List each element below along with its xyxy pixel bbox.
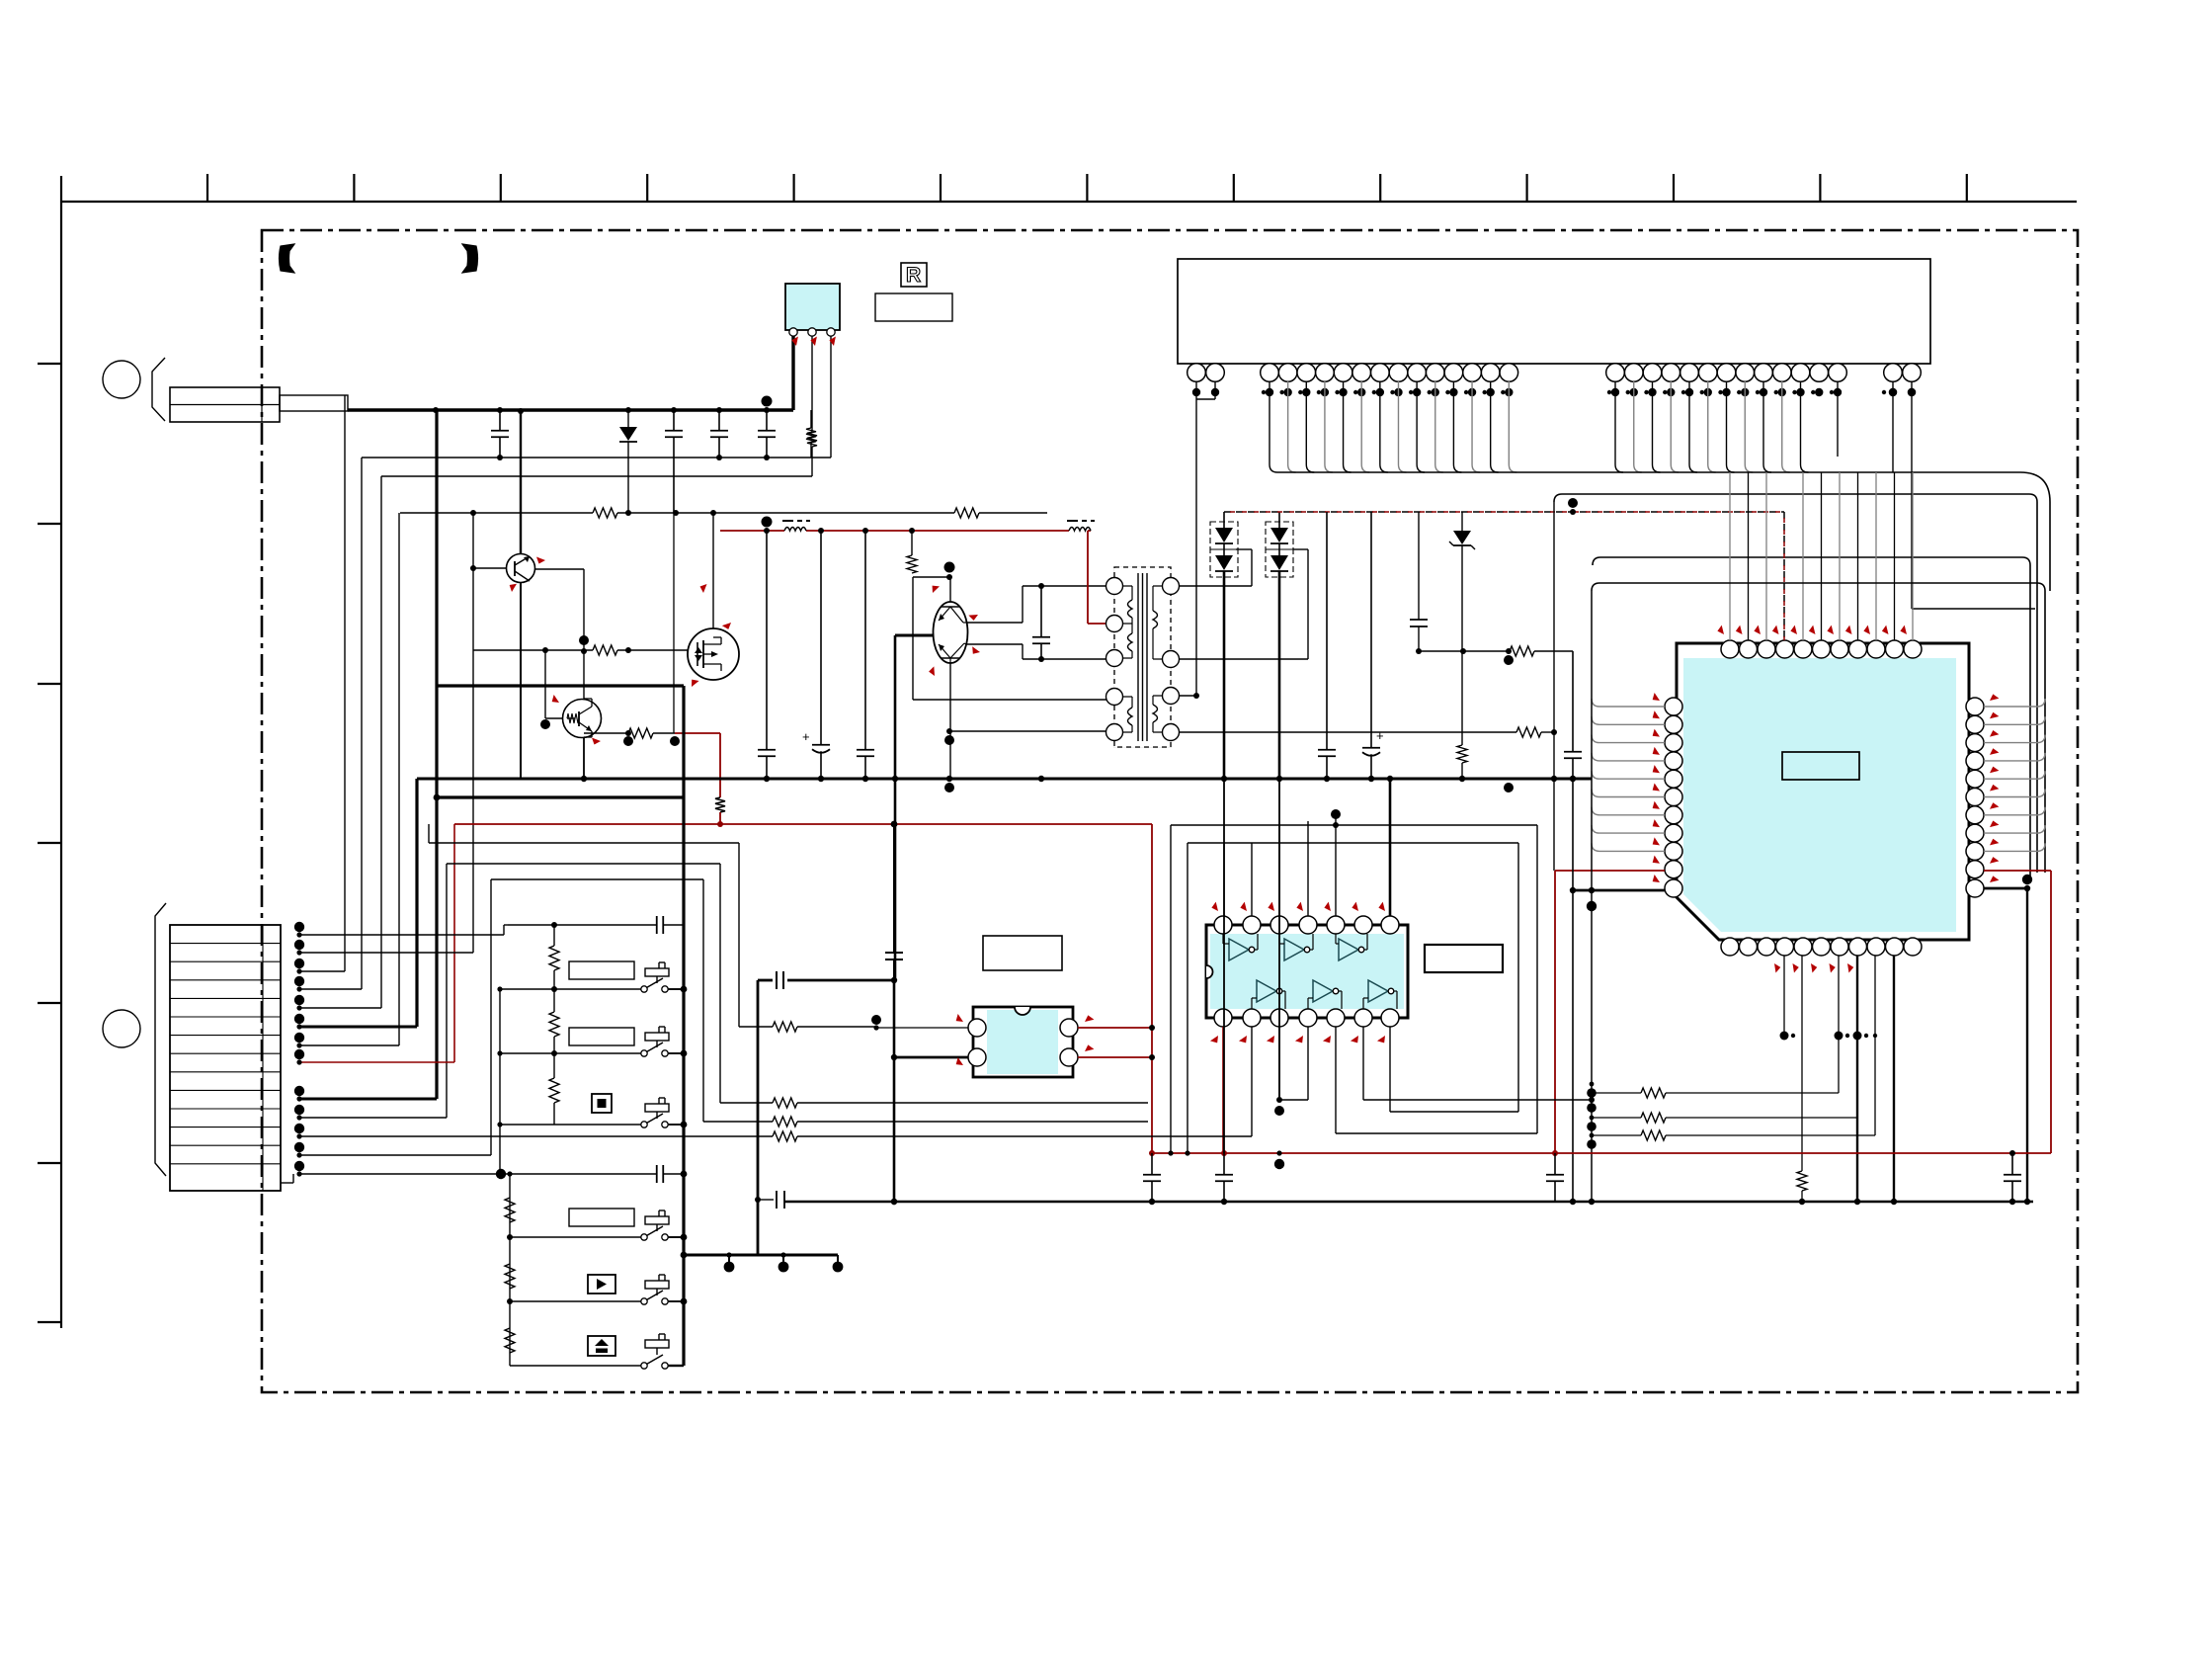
- capacitor C210: [1418, 512, 1420, 620]
- red signal-flow arrows: [791, 337, 1999, 1068]
- board outline dash-dot border: [262, 230, 2078, 1392]
- red branch row to connector: [299, 1061, 454, 1063]
- IC204 inverter 3: [1339, 939, 1358, 960]
- resistor R210 top: [907, 555, 917, 573]
- gnd bus dots: [891, 1199, 2030, 1205]
- IC204 inverter 4: [1257, 980, 1276, 1002]
- IC204 bottom pins: [1214, 1009, 1399, 1027]
- IC202 pin31 wire: [1911, 381, 1913, 609]
- branch line y1106 with resistor: [1592, 1092, 1641, 1094]
- connector row wires upper: [299, 934, 504, 936]
- ladder left rail x506: [499, 989, 501, 1174]
- IC202 pin2 wire jog: [1214, 381, 1216, 392]
- switch row2 y1066: [500, 1052, 641, 1054]
- IC202 group2 wires to bus: [1270, 381, 1516, 472]
- red feed to transformer pin2: [1087, 531, 1089, 624]
- red rail y537: [720, 530, 784, 532]
- IC202 display driver box: [1178, 259, 1930, 364]
- long line y564: [1593, 557, 2030, 879]
- capacitor C208: [1040, 586, 1042, 637]
- Q204 top lead dots: [946, 574, 952, 580]
- IC205 body: [973, 1007, 1073, 1077]
- T201 primary winding 3: [1128, 708, 1133, 725]
- gate row y658 with resistor R206: [473, 649, 593, 651]
- red wire left pin10: [1555, 870, 1665, 872]
- bus wire x452 loop2: [446, 864, 448, 1118]
- svg-text:+: +: [802, 729, 810, 744]
- capacitor C211 column x1343: [1326, 512, 1328, 750]
- red wire to y834 rail: [719, 812, 721, 824]
- bus wire x434 loop1 stub: [428, 824, 430, 843]
- switch row6 y1382 eject: [510, 1365, 641, 1367]
- label box SW1: [569, 961, 634, 979]
- IC204 inverter 5: [1313, 980, 1333, 1002]
- connector CN1 body: [170, 387, 280, 422]
- switch row1 y1001: [500, 988, 641, 990]
- IC202 bus wire y470: [1277, 472, 2050, 591]
- IC203 top pin wires: [1730, 472, 1913, 640]
- hex loop right vertical x1556: [1536, 825, 1538, 1133]
- wire sec pin1 to diode D202: [1179, 585, 1252, 587]
- transistor Q202 digital: [563, 700, 602, 738]
- MOSFET Q203: [688, 628, 739, 680]
- IC205 right top wire red: [1078, 1027, 1152, 1029]
- net row y659: [1419, 650, 1510, 652]
- bus wire x386: [380, 476, 382, 1008]
- IC203 bottom pins: [1721, 938, 1922, 956]
- IC204 inverter 6: [1368, 980, 1388, 1002]
- IC204 inverter 1: [1229, 939, 1249, 960]
- red vertical x1574: [1554, 871, 1556, 1153]
- T201 primary winding 2: [1128, 633, 1133, 651]
- IC201 3-pin regulator: [785, 284, 840, 330]
- junction dots on line A: [497, 455, 770, 460]
- Q204 base link: [913, 576, 950, 578]
- IC201 pin2 lead with resistor R203: [811, 336, 813, 432]
- resistor R213: [1457, 745, 1467, 763]
- hex pin wires top: [1223, 843, 1225, 916]
- black vertical x1573: [1553, 502, 1555, 871]
- diode D201: [627, 410, 629, 427]
- transistor Q201: [507, 554, 535, 583]
- IC201 pin 3: [827, 328, 835, 336]
- play icon box: [588, 1275, 615, 1293]
- bus wire x479: [472, 513, 474, 953]
- junction dots on line C: [470, 510, 716, 516]
- connector CN2 row dots: [294, 922, 304, 1177]
- Q204 collector bottom link: [966, 643, 1023, 645]
- thick vertical x767: [757, 980, 760, 1255]
- capacitor C206 electrolytic: [820, 531, 822, 745]
- long line y500: [1554, 494, 2037, 873]
- bus wire x442 thick: [435, 410, 438, 1099]
- capacitor C203: [718, 410, 720, 431]
- label box IC201: [875, 293, 952, 321]
- mosfet source red link: [675, 732, 720, 734]
- board name bracket left: [280, 244, 295, 273]
- net line C y519 with resistors: [400, 512, 593, 514]
- IC203 right pins: [1966, 698, 1984, 897]
- red rail corner down x1166: [1151, 824, 1153, 1153]
- capacitor C207: [864, 531, 866, 750]
- IC205 label box: [983, 936, 1062, 970]
- inductor L202: [1069, 528, 1091, 532]
- diode pair feed x1295 lower: [1278, 779, 1280, 1100]
- IC205 left bottom wire thick: [894, 1056, 968, 1059]
- T201 secondary winding 2: [1153, 705, 1158, 722]
- switch row3 y1138 stop: [500, 1124, 641, 1126]
- board name bracket right: [462, 244, 478, 273]
- IC202 pin1 long wire to transformer: [1195, 381, 1197, 696]
- hex bottom pin wires: [1222, 1027, 1224, 1153]
- capacitor C220: [1151, 1153, 1153, 1175]
- Q201 right lead: [534, 568, 584, 570]
- cap row y1214: [758, 1199, 774, 1201]
- junction dots row y742: [623, 730, 680, 746]
- capacitor C215 x1592: [1572, 651, 1574, 752]
- dual diode D202 vertical: [1223, 571, 1226, 779]
- winding feed line y740: [949, 730, 1106, 732]
- junction dots red rail 537: [762, 517, 916, 535]
- IC203 QFP body: [1683, 658, 1956, 932]
- T201 pins: [1106, 578, 1180, 741]
- thick key common y1270: [684, 1254, 838, 1257]
- branch line y1131 with resistor: [1592, 1117, 1641, 1119]
- red dashed wire to QFP: [1783, 512, 1785, 640]
- eject icon box: [588, 1336, 615, 1356]
- red vertical x2076: [2050, 871, 2052, 1153]
- switch bus x692 thick: [682, 686, 685, 1366]
- net line B y482: [381, 475, 812, 477]
- IC201 pin 1: [789, 328, 797, 336]
- switch row4 y1252: [510, 1236, 641, 1238]
- bus wire x404: [398, 513, 400, 1045]
- vertical x552: [544, 650, 546, 718]
- gnd bus y1216: [784, 1201, 2033, 1204]
- cap row line y1188: [299, 1173, 510, 1175]
- thick base feed line y643: [895, 634, 934, 637]
- red wire right pin10: [1984, 870, 2051, 872]
- vertical x591: [583, 569, 585, 699]
- capacitor C205: [766, 531, 768, 750]
- row y742 with resistor R207: [584, 732, 628, 734]
- red wire source to rail: [719, 733, 721, 797]
- black wire left pin11: [1573, 889, 1665, 892]
- hex loop vertical x1202: [1187, 843, 1188, 1153]
- bottom pin dots: [1780, 1032, 1878, 1041]
- red supply bus y1167: [1152, 1152, 2051, 1154]
- wire sec pin2 to diode D203: [1179, 658, 1308, 660]
- dual diode D203: [1278, 512, 1280, 528]
- base line Q201: [473, 567, 506, 569]
- lower ladder x516: [509, 1174, 511, 1366]
- connector ref circle CN1: [103, 361, 140, 398]
- junction dots main bus: [581, 776, 1576, 793]
- thick link y806: [437, 795, 684, 798]
- thick vertical x905 lower: [893, 824, 895, 953]
- IC201 pin3 lead: [830, 336, 832, 458]
- IC204 label box: [1425, 945, 1503, 972]
- main bus y788: [417, 778, 1592, 781]
- hex loop vertical x1185: [1170, 825, 1172, 1153]
- branch line y1149 with resistor: [1592, 1134, 1641, 1136]
- IC205 right bottom wire red: [1078, 1056, 1152, 1058]
- transistor Q204 dual: [934, 602, 968, 663]
- key common hanging dots: [728, 1255, 730, 1263]
- winding feed line y708: [913, 699, 1106, 701]
- IC202 pins row: [1188, 364, 1922, 382]
- junction dots on B+ wire: [433, 396, 773, 414]
- T201 secondary winding 1: [1153, 611, 1158, 628]
- wire riser to IC201 pin1: [791, 334, 794, 410]
- IC202 pin30 wire: [1892, 381, 1894, 472]
- capacitor C201: [499, 410, 501, 431]
- label box SW2: [569, 1028, 634, 1045]
- capacitor row y1188: [510, 1173, 657, 1175]
- red dashed B+ line y518: [1224, 511, 1784, 513]
- T201 primary winding 1: [1128, 600, 1133, 618]
- black wire right pin11: [1984, 887, 2027, 890]
- connector CN2 bracket: [155, 903, 166, 1176]
- label box SW4: [569, 1209, 634, 1226]
- connector CN1 bracket: [152, 358, 165, 421]
- IC204 inverter 2: [1284, 939, 1304, 960]
- IC201 pin 2: [808, 328, 816, 336]
- wire sec pin3 to IC bus: [1179, 695, 1196, 697]
- loop1 chain: [429, 842, 739, 844]
- frame left tick marks: [38, 364, 61, 1322]
- IC204 top pins: [1214, 916, 1399, 934]
- IC203 bottom pin wires: [1783, 956, 1785, 1036]
- long row line y1150: [299, 1135, 773, 1137]
- loop3 chain: [491, 878, 703, 880]
- thick link y694: [437, 684, 684, 687]
- svg-text:+: +: [1376, 728, 1384, 743]
- Q204 bottom lead: [949, 663, 951, 779]
- stop icon box: [592, 1094, 612, 1113]
- transformer T201 dashed box: [1114, 567, 1171, 747]
- frame left ruler line: [60, 176, 62, 1328]
- dots on dashed line: [1570, 509, 1576, 515]
- black vertical x2052: [2026, 888, 2028, 1202]
- wire B+ from tuner connector: [348, 408, 793, 411]
- bus wire x460 red: [453, 824, 455, 1062]
- spine lower x1611: [1591, 843, 1593, 1202]
- resistor ladder x561: [553, 925, 555, 946]
- left spine x1611: [1592, 583, 2045, 873]
- inductor L201: [784, 528, 806, 532]
- switch row5 y1317 play: [510, 1300, 641, 1302]
- diode pair feed x1239 lower: [1223, 779, 1225, 1153]
- loop2 chain: [447, 863, 720, 865]
- dual diode D202: [1223, 512, 1225, 528]
- thick vertical x906: [894, 635, 897, 980]
- connector CN2 body: [170, 925, 281, 1191]
- hex loop right vertical x1537: [1517, 843, 1519, 1112]
- hex top loop y835: [1171, 824, 1537, 826]
- hex top loop y853: [1188, 842, 1518, 844]
- junction dots gate row: [542, 635, 631, 654]
- last row join stub: [281, 1182, 293, 1184]
- IC202 group3 wires to bus: [1615, 381, 1809, 472]
- thick line y992: [758, 979, 773, 982]
- capacitor C204: [766, 410, 768, 431]
- IC203 left pin loop wires: [1592, 699, 1665, 851]
- zener diode D204: [1461, 512, 1463, 531]
- resistor R218: [1797, 1171, 1807, 1191]
- bus wire x497 loop3: [490, 879, 492, 1155]
- switch rail y936: [508, 924, 657, 926]
- IC203 right pin loop wires: [1984, 699, 2045, 851]
- wire sec pin4 feedback: [1179, 731, 1516, 733]
- IC203 QFP outline: [1677, 643, 1969, 940]
- resistor R208 in red wire: [715, 797, 725, 812]
- resistor R201: [810, 410, 812, 428]
- bus wire x349: [344, 395, 346, 971]
- IC203 left pins: [1665, 698, 1682, 897]
- bus wire x366: [361, 458, 363, 989]
- connector row wires lower: [299, 1098, 437, 1101]
- IC203 label box: [1782, 752, 1859, 780]
- capacitor C221: [1223, 1153, 1225, 1175]
- R mark icon: [901, 263, 927, 287]
- IC204 hex inverter body: [1206, 925, 1408, 1018]
- dual diode D203 vertical: [1278, 571, 1281, 779]
- IC205 pins: [968, 1019, 986, 1037]
- frame top tick marks: [207, 174, 1967, 202]
- frame top ruler line: [62, 201, 2077, 203]
- IC202 pin junction dots: [1192, 388, 1916, 396]
- red rail y834: [454, 823, 1152, 825]
- svg-text:R: R: [906, 264, 921, 287]
- spine junction dots: [1587, 1082, 1597, 1149]
- IC205 left top wire: [876, 1027, 968, 1029]
- capacitor C202: [673, 410, 675, 431]
- junction dots red rail: [717, 821, 897, 828]
- connector CN1 extension: [280, 395, 348, 411]
- bus wire x422 thick: [415, 779, 418, 1027]
- capacitor C212 electrolytic x1388: [1370, 512, 1372, 748]
- transformer core: [1137, 573, 1139, 741]
- connector ref circle CN2: [103, 1010, 140, 1047]
- capacitor C223: [2011, 1153, 2013, 1175]
- IC203 top pins: [1721, 640, 1922, 658]
- red bus dots: [1149, 1150, 2015, 1169]
- net line A y463: [362, 457, 831, 459]
- IC202 pin29 wire: [1837, 381, 1839, 457]
- capacitor C222: [1554, 1153, 1556, 1175]
- Q204 collector top link: [966, 622, 1023, 624]
